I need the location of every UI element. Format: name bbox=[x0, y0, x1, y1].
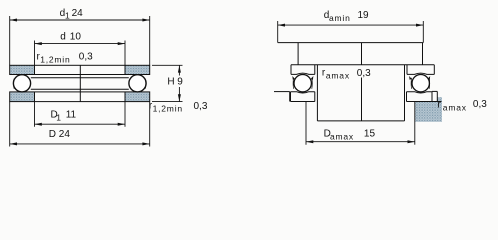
svg-text:amax: amax bbox=[330, 132, 354, 142]
svg-text:15: 15 bbox=[364, 128, 376, 139]
svg-text:0,3: 0,3 bbox=[473, 99, 487, 110]
svg-text:amax: amax bbox=[326, 71, 350, 81]
svg-text:1,2min: 1,2min bbox=[153, 104, 183, 114]
svg-text:1: 1 bbox=[56, 113, 62, 123]
svg-text:amax: amax bbox=[443, 102, 467, 112]
svg-text:H: H bbox=[167, 77, 174, 88]
svg-text:D: D bbox=[49, 129, 56, 140]
svg-text:24: 24 bbox=[59, 129, 71, 140]
svg-text:9: 9 bbox=[177, 77, 183, 88]
svg-text:11: 11 bbox=[66, 110, 77, 121]
svg-text:amin: amin bbox=[329, 13, 351, 23]
svg-text:19: 19 bbox=[358, 10, 370, 21]
svg-text:24: 24 bbox=[72, 8, 84, 19]
svg-text:1: 1 bbox=[65, 11, 71, 21]
svg-text:10: 10 bbox=[70, 32, 82, 43]
svg-text:d: d bbox=[60, 32, 66, 43]
svg-text:0,3: 0,3 bbox=[357, 68, 371, 79]
svg-text:0,3: 0,3 bbox=[79, 52, 93, 63]
svg-text:1,2min: 1,2min bbox=[40, 55, 70, 65]
svg-text:0,3: 0,3 bbox=[194, 101, 208, 112]
